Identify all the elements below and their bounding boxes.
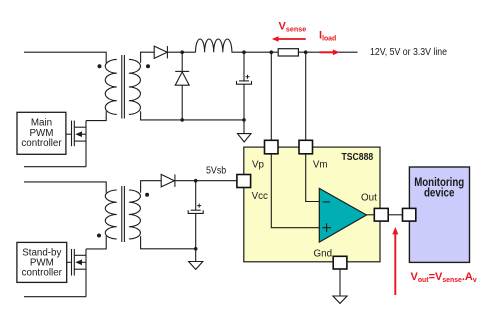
Monitoring device box M1 xyxy=(409,167,469,262)
op-amp U1 triangle xyxy=(319,188,366,242)
phase dot T2 primary xyxy=(97,234,101,238)
Stand-by PWM controller box U3 xyxy=(17,242,67,282)
wire T2 secondary bottom rail xyxy=(141,236,196,249)
wire Rsense to line out xyxy=(298,51,357,53)
pin Out xyxy=(374,208,388,221)
ground G2 xyxy=(189,262,203,270)
wire Q1 source return xyxy=(24,166,86,168)
wire sense- to Vm pin xyxy=(305,52,307,140)
transformer T2 primary winding xyxy=(105,190,117,239)
svg-text:Vout=Vsense.Av: Vout=Vsense.Av xyxy=(411,271,477,284)
wire gate Q1 xyxy=(66,133,71,135)
phase dot T1 secondary xyxy=(146,64,150,68)
transistor Q1 xyxy=(72,121,87,167)
pin Gnd xyxy=(333,256,347,269)
transformer T1 secondary winding xyxy=(129,59,141,114)
capacitor C1 xyxy=(237,52,252,120)
svg-text:Vsense: Vsense xyxy=(279,21,307,34)
node junction D2 top xyxy=(180,50,184,54)
op-amp plus sign xyxy=(322,223,331,232)
pin monitoring input xyxy=(403,208,416,221)
ground G3 xyxy=(333,296,347,303)
pin Vp xyxy=(265,140,279,154)
wire Q2 drain to transformer T2 primary xyxy=(86,236,106,249)
transistor Q2 xyxy=(72,249,87,297)
capacitor C2 xyxy=(188,181,203,249)
wire op-amp output to Out pin xyxy=(367,214,375,216)
svg-text:Vp: Vp xyxy=(252,159,265,170)
svg-text:12V, 5V or 3.3V line: 12V, 5V or 3.3V line xyxy=(370,47,447,58)
diode D3 xyxy=(161,174,175,187)
node junction Vm sense xyxy=(304,50,308,54)
wire Vp pin to op-amp plus input xyxy=(271,154,319,228)
resistor Rsense xyxy=(278,49,298,56)
wire sense+ to Vp pin xyxy=(270,52,272,140)
phase dot T2 secondary xyxy=(145,193,149,197)
wire D2 anode to bottom rail xyxy=(181,85,183,120)
arrow Vsense red left xyxy=(272,36,306,42)
wire Q2 source return xyxy=(24,296,86,298)
wire Out pin to monitor pin xyxy=(388,214,402,216)
wire L1 to sense resistor xyxy=(232,51,279,53)
svg-text:controller: controller xyxy=(22,268,63,279)
node junction C2 bottom xyxy=(194,247,198,251)
node junction C1 bottom xyxy=(242,118,246,122)
ground G1 xyxy=(238,134,252,142)
svg-text:TSC888: TSC888 xyxy=(342,152,374,163)
pin Vm xyxy=(299,140,313,154)
wire C2 to ground xyxy=(195,249,197,262)
op-amp IC U1 TSC888 body xyxy=(244,147,380,262)
svg-text:Vcc: Vcc xyxy=(252,191,268,202)
wire T2 secondary top to diode D3 xyxy=(141,181,162,193)
pin Vcc xyxy=(237,175,251,188)
wire Q1 drain to transformer T1 primary xyxy=(86,111,106,120)
transformer T1 core xyxy=(122,55,125,119)
wire 5Vsb rail xyxy=(175,180,237,182)
svg-text:Gnd: Gnd xyxy=(314,249,333,260)
transformer T1 primary winding xyxy=(105,59,117,114)
op-amp minus sign xyxy=(323,201,331,203)
wire D1 cathode to inductor xyxy=(167,51,195,53)
wire T2 primary top input xyxy=(24,182,106,193)
svg-text:Vm: Vm xyxy=(313,159,328,170)
wire Vm pin to op-amp minus input xyxy=(306,154,320,202)
svg-text:Out: Out xyxy=(361,192,377,203)
wire secondary bottom rail xyxy=(141,111,244,120)
wire C1 to ground xyxy=(243,120,245,134)
transformer T2 core xyxy=(122,186,125,242)
arrow Vout red up xyxy=(392,227,398,295)
svg-text:5Vsb: 5Vsb xyxy=(206,165,226,176)
node junction C1 top xyxy=(242,50,246,54)
node junction C2 top xyxy=(194,179,198,183)
arrow Iload red right xyxy=(320,49,340,55)
wire Gnd pin to ground xyxy=(339,269,341,296)
inductor L1 xyxy=(196,39,232,52)
svg-text:Iload: Iload xyxy=(319,30,336,43)
Main PWM controller box U2 xyxy=(17,112,66,154)
diode D1 xyxy=(154,46,167,58)
wire D2 cathode xyxy=(181,52,183,71)
transformer T2 secondary winding xyxy=(129,190,141,239)
diode D2 freewheel xyxy=(175,71,189,85)
phase dot T1 primary xyxy=(98,64,102,68)
svg-text:controller: controller xyxy=(21,138,62,149)
wire gate Q2 xyxy=(67,261,71,263)
wire T1 primary top input xyxy=(24,52,106,63)
svg-text:device: device xyxy=(424,185,455,199)
node junction Vp sense xyxy=(270,50,274,54)
wire T1 secondary top to diode D1 xyxy=(141,52,155,63)
node junction D2 bottom xyxy=(180,118,184,122)
